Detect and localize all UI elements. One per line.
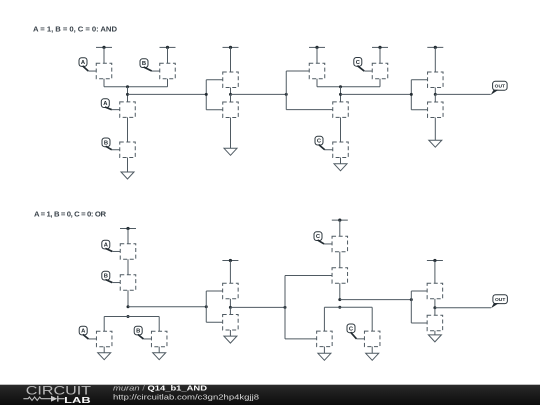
svg-text:A = 1, B = 0, C = 0: OR: A = 1, B = 0, C = 0: OR [34,210,106,219]
svg-text:B: B [136,329,140,335]
svg-text:muran / Q14_b1_AND: muran / Q14_b1_AND [113,384,208,393]
svg-text:OUT: OUT [495,297,505,303]
svg-text:http://circuitlab.com/c3gn2hp4: http://circuitlab.com/c3gn2hp4kgjj8 [113,392,259,401]
svg-text:OUT: OUT [495,84,505,90]
svg-text:B: B [104,140,108,146]
svg-text:A = 1, B = 0, C = 0: AND: A = 1, B = 0, C = 0: AND [33,25,117,34]
svg-text:LAB: LAB [64,395,91,405]
